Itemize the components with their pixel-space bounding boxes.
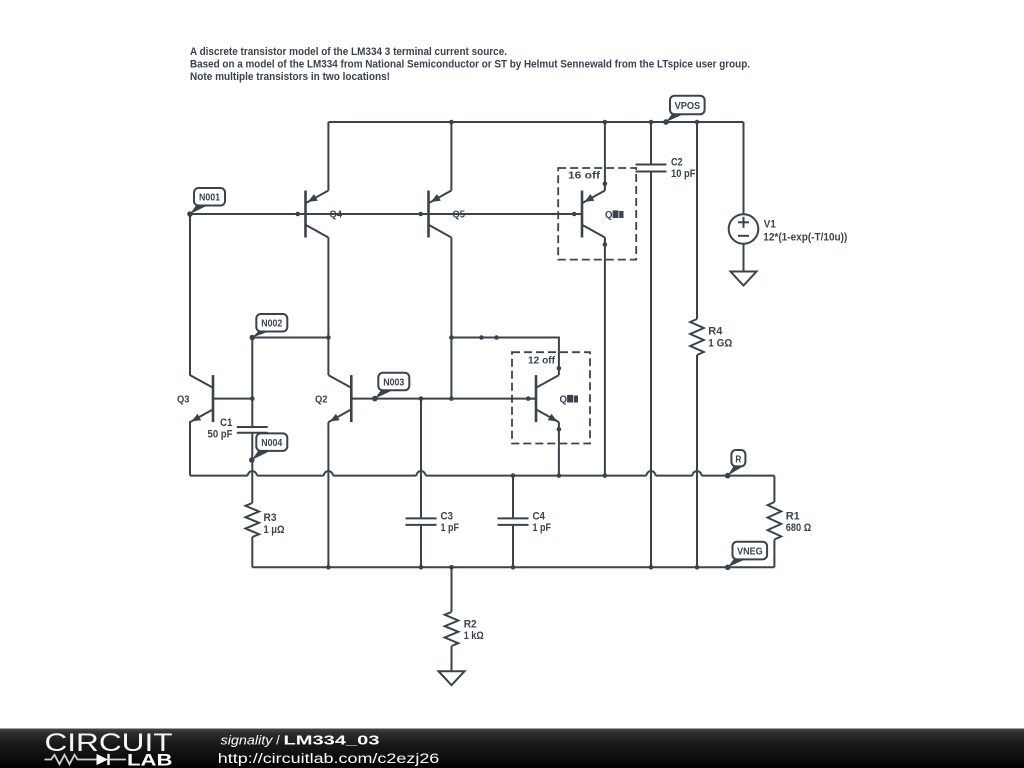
svg-text:C4: C4 (533, 510, 546, 522)
voltage source V1 (729, 214, 848, 244)
svg-text:10 pF: 10 pF (671, 168, 696, 180)
wire hop at Q2 emitter column (324, 471, 333, 476)
wire N001 base line (190, 213, 582, 215)
svg-text:C1: C1 (220, 417, 233, 429)
node flag N002 (250, 314, 288, 340)
node dot Q2 emitter on lower rail (326, 565, 331, 570)
svg-text:1 GΩ: 1 GΩ (708, 337, 732, 349)
node dot Q5 base (418, 212, 423, 217)
svg-text:signality / LM334_03: signality / LM334_03 (221, 733, 380, 748)
svg-text:50 pF: 50 pF (208, 429, 233, 441)
wire Q2 emitter column (327, 422, 329, 567)
wire C3 bottom lead (420, 525, 422, 567)
svg-text:1 pF: 1 pF (533, 522, 552, 534)
svg-text:Based on a model of the LM334: Based on a model of the LM334 from Natio… (190, 59, 750, 71)
svg-text:V1: V1 (764, 219, 776, 231)
wire C3 column top (420, 399, 422, 519)
dashed box 16 off (558, 168, 636, 260)
transistor Q2 (315, 375, 351, 422)
transistor QB2 12 off stacked (528, 375, 578, 422)
svg-text:N003: N003 (383, 377, 404, 388)
wire hop at C3 column (417, 471, 426, 476)
node dot QB2 base (526, 396, 531, 401)
node flag N003 (372, 373, 409, 402)
svg-text:Q: Q (605, 210, 613, 221)
wire Q4 emitter column (327, 122, 329, 191)
wire C4 bottom lead (512, 525, 514, 567)
node dot QB2 emitter on upper rail (557, 473, 562, 478)
svg-text:Q2: Q2 (315, 395, 328, 406)
transistor Q5 (421, 191, 466, 238)
svg-text:LAB: LAB (127, 751, 173, 768)
wire upper rail R node (190, 475, 774, 477)
resistor R2 (445, 612, 484, 646)
node dot Q5 collector net b (479, 335, 484, 340)
wire N002 C1 column top (251, 338, 253, 428)
wire R4 top lead (696, 122, 698, 319)
capacitor C1 (208, 417, 268, 441)
node dot C4 top on upper rail (511, 473, 516, 478)
wire R4 bottom lead (696, 355, 698, 567)
svg-text:C3: C3 (441, 510, 454, 522)
transistor QB1 16 off stacked (574, 184, 623, 245)
wire Q3 emitter column (189, 421, 191, 476)
svg-text:http://circuitlab.com/c2ezj26: http://circuitlab.com/c2ezj26 (218, 751, 439, 766)
resistor R3 (246, 503, 285, 537)
wire R1 top lead (773, 476, 775, 502)
node dot C3 on lower rail (419, 565, 424, 570)
hop gaps on upper rail (248, 474, 702, 477)
wire QB2 collector column (558, 368, 560, 375)
svg-text:12 off: 12 off (528, 355, 556, 366)
wire C2 bottom lead (650, 172, 652, 568)
ground below V1 (731, 272, 757, 286)
node dot C2 column on top rail (649, 120, 654, 125)
svg-text:Q4: Q4 (330, 210, 343, 221)
wire C2 top lead (650, 122, 652, 165)
node dot R2 on lower rail (449, 565, 454, 570)
wire V1 top lead (743, 122, 745, 214)
wire lower rail VNEG (252, 566, 774, 568)
node dot QB2 collector pin (557, 366, 562, 371)
node dot R4 on lower rail (695, 565, 700, 570)
node dot Q4 base (295, 212, 300, 217)
node dot Q5 collector net c (494, 335, 499, 340)
wire R2 top lead (451, 567, 453, 612)
node flag N004 (249, 433, 287, 462)
node flag VNEG (725, 542, 767, 570)
wire Q2 collector column (327, 338, 329, 376)
node dot Q5 emitter on top rail (449, 120, 454, 125)
svg-text:R: R (735, 454, 742, 465)
svg-text:R2: R2 (464, 619, 477, 631)
wire Q4 collector to N002 (327, 238, 329, 338)
svg-text:Q5: Q5 (453, 210, 466, 221)
wire QB1 emitter column (604, 122, 606, 191)
CircuitLab logo diode (97, 754, 109, 765)
node dot QB1 column on top rail (603, 120, 608, 125)
svg-text:Q3: Q3 (177, 395, 190, 406)
wire R1 bottom lead (773, 540, 775, 568)
svg-text:C2: C2 (671, 156, 683, 168)
dashed box 12 off (512, 352, 590, 443)
node dot QB1 base (572, 212, 577, 217)
svg-text:Note multiple transistors in t: Note multiple transistors in two locatio… (190, 71, 390, 83)
svg-text:1 pF: 1 pF (441, 522, 460, 534)
svg-text:R1: R1 (786, 510, 800, 522)
node dot Q3 base at C1 column (250, 396, 255, 401)
footer bar (0, 729, 1024, 768)
title note text (190, 46, 750, 83)
CircuitLab logo resistor squiggle (45, 755, 97, 764)
svg-text:VNEG: VNEG (737, 547, 763, 558)
svg-text:1 μΩ: 1 μΩ (264, 524, 285, 536)
svg-text:1 kΩ: 1 kΩ (464, 630, 484, 642)
node dot QB1 collector pin (603, 242, 608, 247)
wire R3 bottom lead (251, 537, 253, 567)
svg-text:N002: N002 (261, 319, 282, 330)
transistor Q4 (298, 191, 343, 238)
svg-text:12*(1-exp(-T/10u)): 12*(1-exp(-T/10u)) (763, 232, 847, 244)
node dot Q5 collector at base line (449, 396, 454, 401)
wire QB1 collector column (604, 238, 606, 476)
svg-text:16 off: 16 off (568, 170, 601, 181)
capacitor C3 (406, 510, 460, 534)
wire N001 vertical (189, 214, 191, 376)
ground below R2 (439, 671, 465, 685)
wire QB2 emitter column (558, 422, 560, 476)
svg-text:N001: N001 (199, 193, 220, 204)
wire top rail VPOS (328, 121, 743, 123)
wire V1 bottom lead (743, 244, 745, 272)
wire C4 top lead (512, 476, 514, 519)
resistor R1 (768, 502, 812, 540)
capacitor C4 (498, 510, 552, 534)
svg-text:Q: Q (560, 395, 568, 406)
wire Q5 collector column (450, 238, 452, 399)
wire Q5 collector net horizontal (451, 338, 559, 369)
node flag VPOS (663, 96, 704, 125)
wire Q2 base line (351, 398, 536, 400)
transistor Q3 (177, 375, 213, 422)
svg-text:R4: R4 (708, 326, 723, 338)
wire hop at C2 column (647, 471, 656, 476)
wire R2 bottom lead (451, 646, 453, 671)
svg-text:N004: N004 (261, 438, 282, 449)
node dot C4 on lower rail (511, 565, 516, 570)
node flag N001 (187, 188, 225, 217)
node dot QB2 emitter pin (557, 427, 562, 432)
svg-text:R3: R3 (264, 512, 277, 524)
svg-text:680 Ω: 680 Ω (786, 522, 812, 534)
node dot Q5 collector net a (449, 335, 454, 340)
wire hop at R3 column (248, 471, 257, 475)
node dot C2 on lower rail (649, 565, 654, 570)
wire Q5 emitter column (450, 122, 452, 191)
wire hop at R4 column (693, 471, 702, 476)
node dot R4 column on top rail (695, 120, 700, 125)
svg-text:VPOS: VPOS (675, 101, 701, 112)
resistor R4 (690, 319, 732, 355)
node dot N002 at Q4 collector (326, 335, 331, 340)
node dot C3 column at base line (419, 396, 424, 401)
node flag R (725, 450, 746, 478)
wire C1 bottom N004 R3 column (251, 433, 253, 503)
node dot QB1 emitter pin (603, 181, 608, 186)
wire N002 horizontal (252, 337, 328, 339)
svg-text:A discrete transistor model of: A discrete transistor model of the LM334… (190, 46, 507, 58)
wire Q3 base (213, 398, 252, 400)
capacitor C2 (636, 156, 696, 179)
node dot QB1 collector on upper rail (603, 473, 608, 478)
